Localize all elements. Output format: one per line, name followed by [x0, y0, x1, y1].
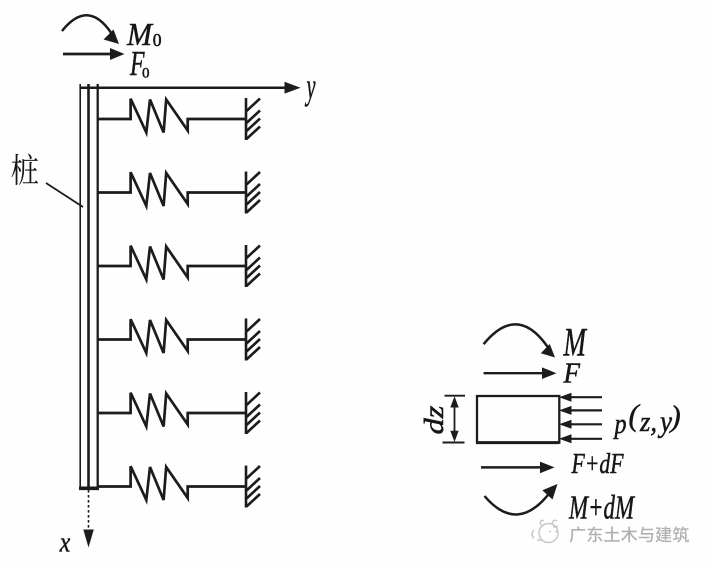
moment arrow M [484, 324, 555, 357]
svg-text:F: F [563, 359, 581, 390]
wall support 6 [246, 466, 260, 508]
svg-text:(: ( [629, 399, 641, 433]
element rectangle [477, 396, 559, 443]
label M0 [126, 16, 162, 52]
moment arrow M0 [62, 15, 119, 44]
wall support 5 [246, 392, 260, 434]
x axis [83, 490, 94, 548]
pile pointer line [46, 183, 83, 207]
spring row 2 [98, 172, 246, 206]
spring row 3 [98, 246, 246, 280]
watermark text [570, 526, 689, 542]
label F0 [129, 44, 149, 83]
svg-text:0: 0 [142, 66, 150, 82]
wall support 1 [246, 98, 260, 140]
svg-text:p: p [613, 408, 627, 440]
force arrow F0 [63, 48, 125, 60]
svg-text:0: 0 [153, 30, 162, 50]
pile [79, 84, 99, 489]
moment arrow M+dM [485, 484, 558, 514]
wall support 3 [246, 245, 260, 287]
svg-text:): ) [669, 400, 681, 434]
force arrow F+dF [481, 462, 555, 474]
p distributed load arrows [559, 393, 602, 444]
spring row 1 [98, 99, 246, 133]
svg-text:y: y [304, 66, 316, 107]
svg-text:M+dM: M+dM [568, 490, 635, 527]
svg-text:z,: z, [639, 406, 657, 438]
spring row 6 [98, 466, 246, 500]
force arrow F [484, 367, 557, 379]
wall support 4 [246, 319, 260, 361]
y axis [80, 82, 301, 94]
svg-text:F+dF: F+dF [571, 449, 624, 480]
wall support 2 [246, 172, 260, 214]
svg-text:x: x [59, 526, 70, 558]
dz dimension arrows [443, 396, 466, 443]
svg-text:dz: dz [419, 405, 449, 435]
label pile (zhuang) [12, 154, 39, 185]
spring row 5 [98, 393, 246, 427]
spring row 4 [98, 319, 246, 353]
label p(z,y) [613, 399, 681, 441]
watermark logo [532, 520, 558, 542]
